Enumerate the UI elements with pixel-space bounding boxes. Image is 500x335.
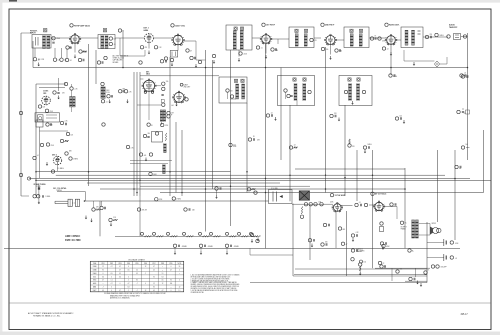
svg-text:1.1: 1.1 xyxy=(179,290,181,292)
transformer T7 windings xyxy=(236,84,239,99)
socket sq xyxy=(161,99,164,102)
heater resistor RH4 xyxy=(250,232,253,235)
electrolytic C30A xyxy=(443,239,445,246)
resistor R67d xyxy=(359,263,362,266)
svg-text:330: 330 xyxy=(326,49,329,51)
tube V3 oscillator xyxy=(173,35,183,45)
resistor R2 xyxy=(53,58,56,61)
svg-text:.001: .001 xyxy=(339,51,342,53)
svg-text:PIN9: PIN9 xyxy=(170,263,173,265)
pilot lamp P2 xyxy=(153,232,156,235)
junction xyxy=(325,175,326,176)
transformer T8 windings xyxy=(294,84,297,101)
transformer T10 output winding xyxy=(412,220,415,238)
svg-text:1.1: 1.1 xyxy=(162,273,164,275)
svg-text:PIN7: PIN7 xyxy=(153,263,156,265)
resistor R85 xyxy=(247,188,250,191)
svg-text:C3: C3 xyxy=(58,60,60,62)
svg-text:50C5: 50C5 xyxy=(93,276,96,278)
ground xyxy=(352,101,354,103)
svg-text:85: 85 xyxy=(153,286,155,288)
tube V12 xyxy=(174,92,184,102)
wire xyxy=(383,206,397,208)
svg-text:PIN3: PIN3 xyxy=(119,263,122,265)
resistor R72 xyxy=(162,82,165,85)
resistor R45 xyxy=(363,146,366,149)
resistor R90 zig xyxy=(301,207,303,215)
svg-text:.02: .02 xyxy=(387,49,389,51)
resistor R31 xyxy=(33,156,36,159)
oscillator coil L2 xyxy=(70,97,73,108)
ground xyxy=(330,56,332,58)
svg-text:.001: .001 xyxy=(171,105,174,107)
resistor R48 xyxy=(33,195,36,198)
junction xyxy=(289,174,291,176)
capacitor C10 xyxy=(271,48,274,51)
svg-text:1.2: 1.2 xyxy=(153,283,155,285)
wire xyxy=(161,122,163,126)
capacitor C53 xyxy=(190,56,193,59)
svg-text:47K: 47K xyxy=(145,47,148,49)
trimmer C1A xyxy=(44,29,47,32)
wire xyxy=(140,78,143,80)
wire vertical xyxy=(344,105,346,196)
junction xyxy=(205,188,207,190)
wire xyxy=(404,56,434,61)
svg-text:B+: B+ xyxy=(412,251,414,253)
heater resistor RH1 xyxy=(210,232,213,235)
svg-text:1R5: 1R5 xyxy=(43,93,46,95)
resistor R8 xyxy=(186,49,189,52)
transformer T2 winding xyxy=(101,36,104,49)
capacitor C14 xyxy=(370,37,373,40)
svg-text:150: 150 xyxy=(364,261,367,263)
wire vertical xyxy=(483,130,485,193)
wire vertical xyxy=(289,105,291,201)
resistor R7b xyxy=(170,58,173,61)
capacitor C8 xyxy=(160,60,163,63)
ground xyxy=(390,52,392,54)
tube V7 AM converter xyxy=(42,96,51,105)
pot box xyxy=(152,132,163,143)
wire xyxy=(330,45,332,55)
svg-text:330: 330 xyxy=(148,133,151,135)
junction xyxy=(467,67,469,69)
svg-text:4.7: 4.7 xyxy=(111,266,113,268)
transformer T9 windings xyxy=(349,84,352,101)
svg-text:220K: 220K xyxy=(50,111,53,113)
diamond test point xyxy=(434,61,439,67)
pilot lamp P3 xyxy=(167,232,170,235)
svg-text:PIN6: PIN6 xyxy=(144,263,147,265)
resistor R44 xyxy=(348,144,351,147)
resistor R36 xyxy=(143,134,146,137)
svg-text:TUBE: TUBE xyxy=(93,263,97,265)
resistor R87 xyxy=(400,221,403,224)
wire vertical xyxy=(454,150,456,240)
pilot lamp P1 xyxy=(141,232,144,235)
capacitor C37 xyxy=(314,203,317,206)
svg-text:PIN8: PIN8 xyxy=(161,263,164,265)
wire vertical xyxy=(88,44,90,186)
wire xyxy=(375,267,430,269)
junction xyxy=(246,171,248,173)
ground xyxy=(213,60,215,62)
ground xyxy=(38,200,40,202)
resistor R46 xyxy=(461,146,464,149)
svg-text:22K: 22K xyxy=(192,209,195,211)
junction xyxy=(88,171,90,173)
wire xyxy=(115,235,258,237)
svg-text:1 MEG: 1 MEG xyxy=(73,159,79,161)
svg-text:4.7: 4.7 xyxy=(162,290,164,292)
junction xyxy=(122,67,124,69)
dial cord xyxy=(55,200,68,202)
svg-text:1.1: 1.1 xyxy=(111,280,113,282)
capacitor C21 xyxy=(230,95,233,98)
junction xyxy=(136,192,138,194)
svg-text:1ST: 1ST xyxy=(171,113,174,115)
svg-text:.01: .01 xyxy=(261,48,263,50)
svg-text:47K 2W: 47K 2W xyxy=(142,209,148,211)
svg-text:22K: 22K xyxy=(352,146,355,148)
svg-text:4.7: 4.7 xyxy=(111,283,113,285)
gang C1 section A xyxy=(68,199,72,206)
svg-text:.05: .05 xyxy=(464,73,466,75)
svg-text:RATIO DET.: RATIO DET. xyxy=(389,24,400,27)
svg-text:0.5: 0.5 xyxy=(102,290,104,292)
resistor R6 xyxy=(140,46,143,49)
wire vertical xyxy=(32,41,34,68)
svg-text:0.5: 0.5 xyxy=(162,280,164,282)
wire xyxy=(292,203,333,205)
wire vertical xyxy=(175,122,177,193)
resistor R27 xyxy=(60,121,63,124)
capacitor C17 xyxy=(461,75,464,78)
tube V4 1st FM IF xyxy=(262,35,271,44)
wire B+ bus top xyxy=(33,67,467,69)
resistor R42 xyxy=(229,143,232,146)
junction xyxy=(265,67,267,69)
resistor R80 xyxy=(19,111,22,114)
resistor R3 xyxy=(79,50,82,53)
resistor R68 xyxy=(424,271,427,274)
svg-text:68K: 68K xyxy=(343,229,346,231)
wire vertical xyxy=(122,30,124,68)
capacitor C50 xyxy=(250,233,253,236)
capacitor C51 xyxy=(256,239,259,242)
ground xyxy=(110,223,112,225)
diode plates xyxy=(418,30,421,32)
resistor R54 xyxy=(309,203,312,206)
resistor R67 xyxy=(396,270,399,273)
svg-text:1.5 MEG: 1.5 MEG xyxy=(57,168,64,170)
resistor R59 xyxy=(338,227,341,230)
wire xyxy=(395,39,401,41)
svg-text:470K: 470K xyxy=(165,125,168,127)
resistor R20 xyxy=(64,82,67,85)
svg-text:12AT7 OSC: 12AT7 OSC xyxy=(175,24,186,27)
resistor R50 xyxy=(137,208,140,211)
svg-text:.05: .05 xyxy=(114,44,116,46)
label 12AT7 xyxy=(180,83,183,86)
svg-text:2.2K: 2.2K xyxy=(65,121,68,123)
transformer T5 windings xyxy=(350,34,353,47)
rectifier 35W4 xyxy=(380,242,383,245)
resistor R33 xyxy=(69,157,72,160)
svg-text:47: 47 xyxy=(190,51,192,53)
capacitor C36 xyxy=(304,203,307,206)
svg-text:4.7K: 4.7K xyxy=(129,92,132,94)
svg-text:IF: IF xyxy=(171,115,172,117)
resistor R35 xyxy=(126,145,129,148)
switch ON-OFF xyxy=(431,265,434,268)
wire xyxy=(341,205,352,207)
resistor R58 xyxy=(323,223,326,226)
svg-text:OSC.: OSC. xyxy=(106,90,110,92)
wire left AVC vertical xyxy=(20,33,22,196)
resistor R62c xyxy=(380,222,383,225)
transformer T6 windings xyxy=(405,30,408,45)
capacitor C28 xyxy=(460,74,463,77)
junction xyxy=(139,180,141,182)
wire AC bus xyxy=(4,247,460,249)
wire xyxy=(130,160,172,162)
resistor R74 xyxy=(162,103,165,106)
wire xyxy=(36,83,66,85)
ground xyxy=(91,219,93,221)
wire heater feed xyxy=(86,200,269,202)
svg-text:22K: 22K xyxy=(430,34,433,36)
ground xyxy=(420,283,422,285)
resistor R57 xyxy=(364,203,367,206)
capacitor C47 xyxy=(124,90,127,93)
wire vertical xyxy=(181,130,183,196)
wire vertical xyxy=(265,44,267,249)
wire xyxy=(140,75,219,77)
ground xyxy=(148,51,150,53)
transformer T8 2nd AM IF box xyxy=(278,76,315,106)
capacitor C37b xyxy=(320,203,323,206)
svg-text:470K: 470K xyxy=(233,146,236,148)
capacitor C45 xyxy=(107,95,110,98)
svg-text:PIN4: PIN4 xyxy=(127,263,130,265)
svg-text:AF OUT 50L6: AF OUT 50L6 xyxy=(375,193,386,196)
capacitor C46 xyxy=(119,90,122,93)
svg-text:22K: 22K xyxy=(334,113,337,115)
svg-text:4.7: 4.7 xyxy=(170,270,172,272)
ground xyxy=(257,238,259,240)
wire xyxy=(295,168,405,170)
wire vertical xyxy=(133,72,135,196)
resistor R81 xyxy=(19,173,22,176)
resistor R19 xyxy=(70,87,73,90)
wire vertical xyxy=(169,57,171,196)
svg-text:1ST FM IF: 1ST FM IF xyxy=(266,25,276,27)
svg-text:2.2K: 2.2K xyxy=(159,47,162,49)
svg-text:.001: .001 xyxy=(400,269,403,271)
wire xyxy=(419,223,430,225)
capacitor C27 xyxy=(395,117,398,120)
junction xyxy=(404,188,406,190)
oscillator coil box xyxy=(170,51,178,58)
junction xyxy=(35,180,37,182)
svg-text:10K: 10K xyxy=(71,134,74,136)
transformer T4 2nd FM IF box xyxy=(289,27,314,48)
resistor R24 xyxy=(344,90,347,93)
wire vertical xyxy=(437,150,439,222)
wire xyxy=(163,37,173,39)
svg-text:100: 100 xyxy=(466,77,469,79)
label 12AT7 VHF OSC xyxy=(171,24,174,27)
resistor R18 xyxy=(45,109,48,112)
resistor R49b xyxy=(109,218,112,221)
resistor R65 xyxy=(308,239,311,242)
svg-text:.05: .05 xyxy=(464,113,466,115)
heater resistor RH2 xyxy=(226,232,229,235)
wire vertical xyxy=(136,72,138,196)
capacitor C26 xyxy=(389,74,392,77)
wire vertical xyxy=(139,72,141,196)
svg-text:.02: .02 xyxy=(271,113,273,115)
transformer T6 ratio detector box xyxy=(401,27,423,48)
svg-text:5: 5 xyxy=(123,30,124,32)
svg-text:68K: 68K xyxy=(69,151,72,153)
capacitor C23 xyxy=(287,94,290,97)
ground xyxy=(195,64,197,66)
gang link xyxy=(72,202,75,204)
capacitor C19 xyxy=(53,91,56,94)
svg-text:NOTE: NOTE xyxy=(178,263,182,265)
svg-text:VOLTAGE CHART: VOLTAGE CHART xyxy=(128,258,145,261)
wire vertical xyxy=(246,103,248,193)
table grid xyxy=(90,261,183,292)
wire vertical xyxy=(230,50,232,226)
wire xyxy=(196,41,206,60)
wire vertical xyxy=(212,60,214,189)
svg-text:.05MFD: .05MFD xyxy=(208,246,214,248)
svg-text:100: 100 xyxy=(114,39,117,41)
svg-text:0.5: 0.5 xyxy=(111,273,113,275)
trimmer C24A xyxy=(348,78,351,81)
resistor R77 xyxy=(167,115,170,118)
tube V6 ratio detector xyxy=(387,36,396,45)
wire xyxy=(120,37,145,39)
capacitor C52 xyxy=(97,61,100,64)
wire vertical xyxy=(95,50,97,84)
svg-text:1K: 1K xyxy=(253,136,255,138)
resistor R53 xyxy=(172,197,175,200)
resistor R41 xyxy=(248,138,251,141)
capacitor C7 xyxy=(154,46,157,49)
wire xyxy=(250,282,427,284)
svg-text:47: 47 xyxy=(346,244,348,246)
wire gang feed xyxy=(57,191,86,193)
wire vertical xyxy=(99,201,101,236)
wire xyxy=(285,92,287,99)
svg-text:0.5: 0.5 xyxy=(153,290,155,292)
wire xyxy=(51,37,57,39)
svg-text:.05: .05 xyxy=(459,168,461,170)
pilot lamp P4 xyxy=(183,232,186,235)
svg-text:6BJ6: 6BJ6 xyxy=(146,74,150,76)
svg-text:FMF=10.7MC: FMF=10.7MC xyxy=(65,238,81,242)
ground xyxy=(145,158,147,160)
capacitor C5 xyxy=(78,58,81,61)
ground xyxy=(238,58,240,60)
resistor R62b xyxy=(360,260,363,263)
junction xyxy=(205,67,207,69)
svg-text:1K: 1K xyxy=(428,270,430,272)
svg-text:PIN2: PIN2 xyxy=(110,263,113,265)
svg-text:0.5: 0.5 xyxy=(136,270,138,272)
capacitor C12 xyxy=(335,49,338,52)
svg-text:10K: 10K xyxy=(43,107,46,109)
tube V5 2nd FM IF xyxy=(326,36,335,45)
svg-text:PIN1: PIN1 xyxy=(102,263,105,265)
svg-text:68K: 68K xyxy=(276,50,279,52)
capacitor heater bypass xyxy=(173,244,176,247)
capacitor C6B xyxy=(118,29,121,32)
trimmer C20A xyxy=(234,79,237,82)
trimmer C20B xyxy=(241,79,244,82)
svg-text:2ND FM IF: 2ND FM IF xyxy=(325,25,335,27)
wire xyxy=(38,184,40,200)
resistor R13 xyxy=(378,37,381,40)
resistor R60c xyxy=(378,261,381,264)
resistor R21 xyxy=(226,89,229,92)
tube pins xyxy=(144,91,146,93)
wire xyxy=(227,92,229,99)
capacitor C6 xyxy=(109,37,112,40)
resistor R51 xyxy=(184,208,187,211)
svg-text:4.7K: 4.7K xyxy=(314,40,317,42)
resistor R32 xyxy=(65,152,68,155)
svg-text:47K: 47K xyxy=(62,93,65,95)
wire ground bus bottom xyxy=(9,302,491,304)
wire xyxy=(265,43,267,53)
svg-text:.02: .02 xyxy=(294,145,296,147)
resistor R29 xyxy=(60,139,63,142)
tube V1 FM RF AMP xyxy=(70,24,73,27)
ground xyxy=(46,162,48,164)
capacitor C39 xyxy=(409,277,412,280)
capacitor C35 xyxy=(215,187,218,190)
svg-text:IN MMF.: IN MMF. xyxy=(113,62,119,64)
label 1ST AF AMP xyxy=(330,193,333,196)
svg-text:6.3: 6.3 xyxy=(119,276,121,278)
trimmer C9B xyxy=(240,27,243,30)
wire vertical xyxy=(309,205,311,260)
resistor R84 xyxy=(212,54,215,57)
resistor R78 xyxy=(147,123,150,126)
tube V10 output xyxy=(375,202,383,210)
svg-text:100: 100 xyxy=(400,116,403,118)
svg-text:6.3: 6.3 xyxy=(162,276,164,278)
wire AVC bus band xyxy=(36,171,231,173)
speaker LS1 xyxy=(433,228,439,234)
svg-text:4.7K: 4.7K xyxy=(131,147,134,149)
svg-text:ON-OFF: ON-OFF xyxy=(441,267,447,269)
loop antenna L1 box xyxy=(35,113,60,122)
tube V8 2nd detector xyxy=(53,156,61,164)
resistor R67b xyxy=(351,249,354,252)
electrolytic C16 xyxy=(447,35,450,38)
resistor R14 xyxy=(382,47,385,50)
resistor R52 xyxy=(155,198,158,201)
coil L4 xyxy=(163,165,166,174)
pilot lamp P5 xyxy=(199,232,202,235)
